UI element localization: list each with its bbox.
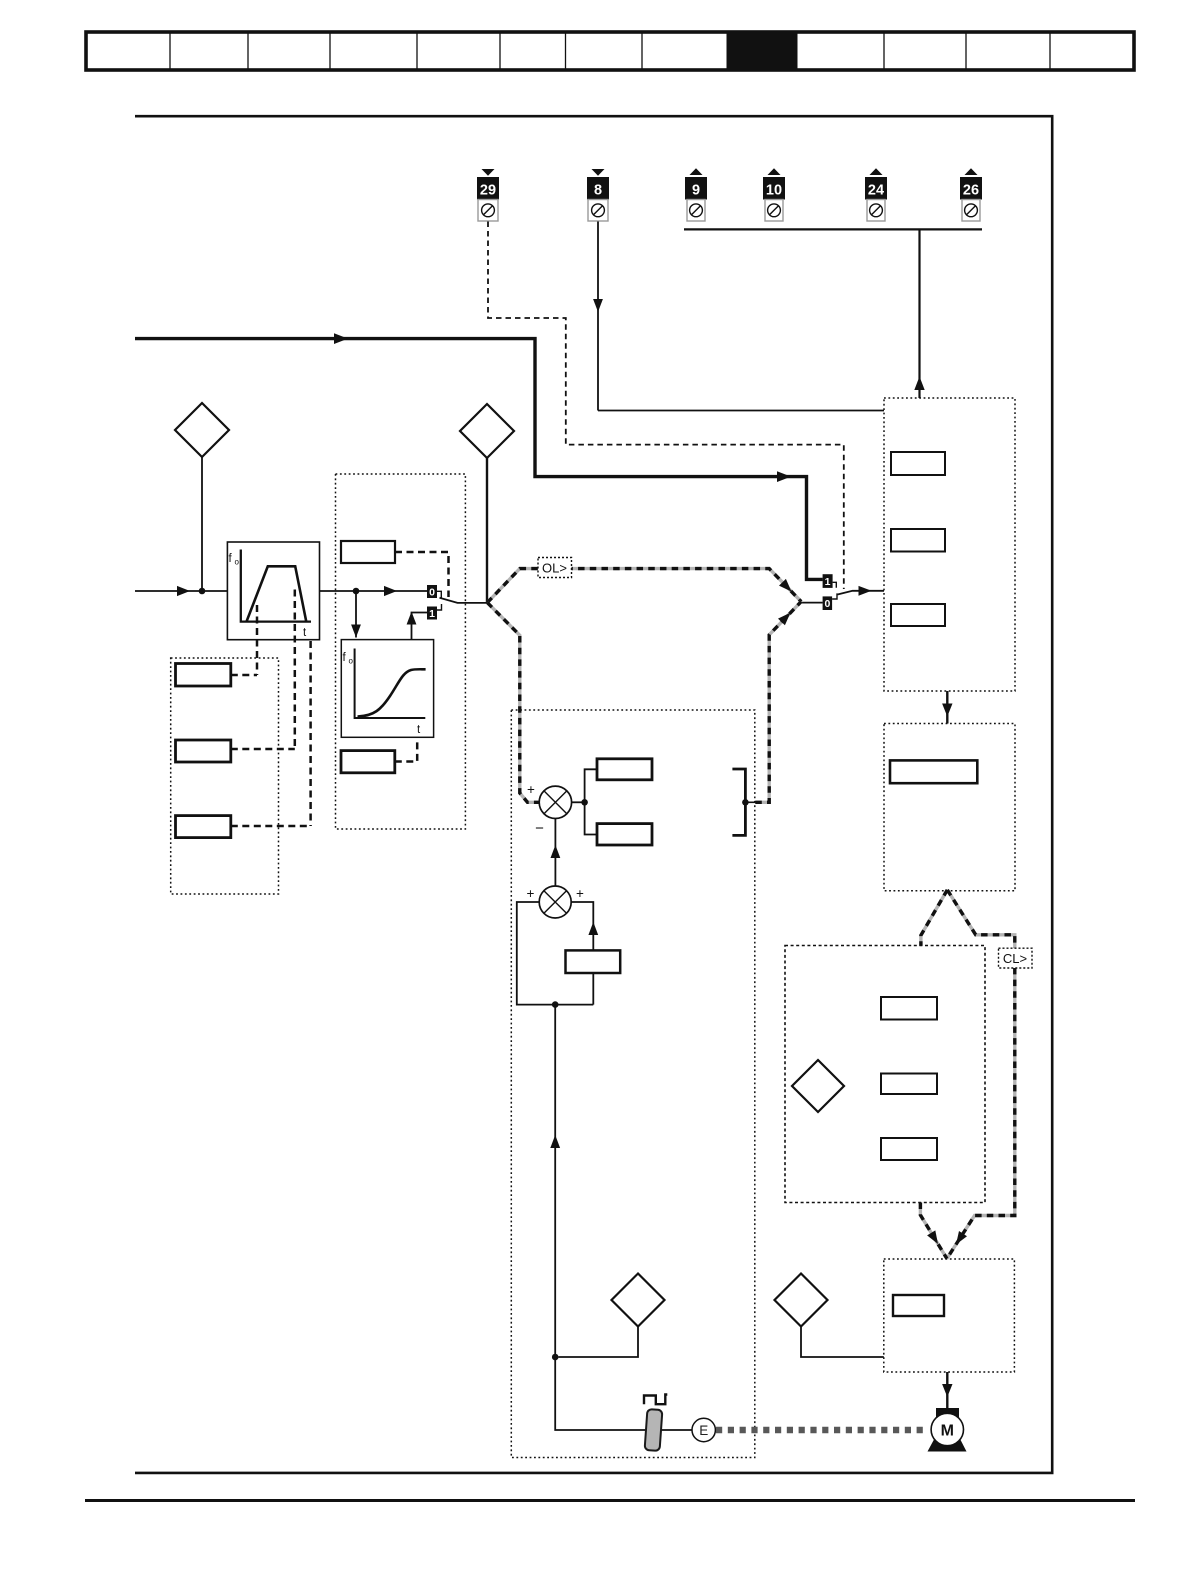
speed loop P gain box xyxy=(597,759,652,780)
wire sequencer to speed controller xyxy=(946,691,948,724)
svg-text:0: 0 xyxy=(824,598,830,610)
wire J1 output to node xyxy=(572,801,585,803)
reference select switch position 0 xyxy=(823,593,837,610)
wire feedback to encoder xyxy=(555,1357,645,1430)
hatched torque-mode path from speed controller down xyxy=(920,890,1014,1259)
svg-text:o: o xyxy=(349,657,354,666)
status parameter box S1 xyxy=(891,452,945,475)
dashed links to ramp parameter boxes xyxy=(231,675,311,826)
S-ramp enable parameter box xyxy=(341,541,395,563)
summing junction J2 xyxy=(527,886,585,918)
wire current control to motor xyxy=(946,1372,948,1408)
arrowhead right leg into current control xyxy=(956,1231,967,1245)
gray dotted mechanical link encoder to motor xyxy=(716,1427,927,1433)
encoder pulse symbol xyxy=(644,1395,667,1405)
svg-text:26: 26 xyxy=(963,183,979,199)
svg-text:CL>: CL> xyxy=(1003,951,1027,966)
wire merge point to switch position 0 xyxy=(801,602,822,604)
S-ramp acceleration limit box xyxy=(341,751,395,773)
header active black cell xyxy=(727,32,798,71)
current control group box xyxy=(884,1259,1015,1372)
wire D2 stem xyxy=(486,458,488,603)
summing junction J1 xyxy=(527,782,572,837)
wire speed feedback up xyxy=(554,1005,556,1357)
node feedback tap xyxy=(552,1354,559,1361)
status parameter box S2 xyxy=(891,529,945,552)
wire node to gain boxes xyxy=(585,769,597,834)
node J1 output xyxy=(581,799,588,806)
motor control parameter box M3 xyxy=(881,1138,937,1160)
motor control parameter box M1 xyxy=(881,997,937,1020)
svg-text:OL>: OL> xyxy=(542,561,567,576)
hatched closed-loop return path up to merge xyxy=(755,602,801,803)
encoder coupling xyxy=(645,1409,663,1451)
motor M xyxy=(928,1408,967,1452)
wire from terminal 8 down xyxy=(597,222,599,411)
svg-text:29: 29 xyxy=(480,183,496,199)
ramp select switch lever xyxy=(440,598,488,603)
wire bus down to status block xyxy=(918,229,920,398)
dashed parameter taps from ramp xyxy=(257,590,311,827)
motor control parameter box M2 xyxy=(881,1074,937,1095)
svg-text:+: + xyxy=(576,886,584,901)
parameter box P1 xyxy=(176,664,231,687)
speed loop group box xyxy=(511,710,755,1458)
svg-text:0: 0 xyxy=(429,587,435,599)
svg-text:24: 24 xyxy=(868,183,884,199)
terminal 10 xyxy=(763,168,785,221)
svg-text:10: 10 xyxy=(766,183,782,199)
node on reference wire xyxy=(199,588,206,595)
hatched open-loop path to OL label and merge xyxy=(487,569,801,603)
ramp select switch position 0 xyxy=(427,585,441,599)
svg-text:M: M xyxy=(941,1423,954,1440)
node bracket xyxy=(742,799,749,806)
speed controller parameter box xyxy=(890,760,977,783)
svg-text:+: + xyxy=(527,886,535,901)
speed loop I gain box xyxy=(597,824,652,845)
wire feedback left loop into J2 xyxy=(517,902,594,1005)
terminal 8 xyxy=(587,169,609,221)
main diagram frame (no left edge) xyxy=(135,116,1052,1473)
svg-text:1: 1 xyxy=(825,576,831,588)
header tab strip xyxy=(86,32,1134,71)
derivative gain box xyxy=(566,950,621,973)
speed controller group box xyxy=(884,724,1015,891)
S-ramp group box xyxy=(336,474,466,829)
status parameter box S3 xyxy=(891,604,945,626)
status output bus under terminals 9,10,24,26 xyxy=(684,228,982,230)
parameter box P3 xyxy=(176,816,231,838)
wire right loop through derivative box xyxy=(571,902,593,1005)
node ramp output xyxy=(353,588,360,595)
wire bracket to hatched return xyxy=(745,801,755,803)
main reference wire into ramp xyxy=(135,590,227,592)
wire D1 stem xyxy=(201,457,203,591)
svg-text:E: E xyxy=(699,1423,708,1438)
thick sequencer wire xyxy=(135,339,823,580)
wire coupling to encoder xyxy=(662,1429,693,1431)
terminal 29 xyxy=(477,169,499,221)
svg-text:−: − xyxy=(535,820,544,837)
bracket reference selector xyxy=(732,769,745,835)
wire S-ramp output to switch position 1 xyxy=(412,613,428,640)
wire D3 stem to feedback node xyxy=(559,1327,639,1358)
ramp select switch position 1 xyxy=(427,604,442,620)
terminal 24 xyxy=(865,168,887,221)
motor control group box xyxy=(785,946,985,1203)
header cell separators xyxy=(170,33,1050,69)
encoder E xyxy=(692,1418,715,1441)
diamond monitor D4 xyxy=(775,1274,828,1327)
svg-text:+: + xyxy=(527,782,535,797)
arrowhead OL branch xyxy=(779,579,792,592)
arrowhead left leg into current control xyxy=(927,1230,938,1244)
diamond monitor D1 xyxy=(175,403,229,457)
CL label box xyxy=(999,948,1033,968)
footer rule xyxy=(85,1499,1135,1502)
terminal 26 xyxy=(960,168,982,221)
diamond monitor D2 xyxy=(460,404,514,458)
dashed link limit box to S-ramp block xyxy=(395,737,417,761)
current control parameter box xyxy=(893,1295,944,1316)
wire into S-ramp block xyxy=(355,591,357,638)
S-ramp curve block xyxy=(341,640,433,738)
arrowhead CL branch xyxy=(778,613,791,626)
reference select switch lever and output wire xyxy=(838,591,885,595)
status/sequencer group box xyxy=(884,398,1015,691)
accel/decel ramp block xyxy=(227,542,319,640)
svg-text:1: 1 xyxy=(429,608,435,620)
ramp parameter group box xyxy=(171,658,279,894)
wire J2 output to J1 minus input xyxy=(554,819,556,886)
reference select switch position 1 xyxy=(823,574,837,588)
wire ramp output to switch xyxy=(320,590,428,592)
svg-text:8: 8 xyxy=(594,183,602,199)
diamond monitor D5 xyxy=(792,1060,844,1112)
svg-text:o: o xyxy=(235,558,240,567)
svg-text:9: 9 xyxy=(692,183,700,199)
dashed wire from terminal 29 to run/stop switch xyxy=(488,222,844,590)
wire D4 stem to current control box xyxy=(801,1327,884,1358)
node feedback loop xyxy=(552,1001,559,1008)
wire terminal 8 to status block xyxy=(598,410,884,412)
dashed link S-ramp enable to switch xyxy=(395,552,449,597)
parameter box P2 xyxy=(176,740,231,762)
diamond monitor D3 xyxy=(612,1274,665,1327)
terminal 9 xyxy=(685,168,707,221)
hatched path down to speed loop summer xyxy=(487,603,539,803)
OL label box xyxy=(538,558,572,578)
